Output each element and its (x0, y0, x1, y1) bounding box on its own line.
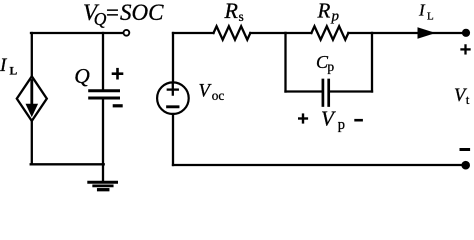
svg-text:V: V (199, 81, 213, 101)
wire bottom-left horizontal (left loop bottom) (31, 163, 104, 165)
current arrow I_L (output) (418, 28, 434, 38)
terminal polarity + (top right) (462, 45, 470, 53)
label Q (capacitor) (74, 64, 90, 88)
capacitor Q plates (90, 91, 119, 98)
label V_t (454, 86, 470, 107)
wire right-loop left vertical (bottom, from V_oc) (172, 114, 174, 165)
ground (89, 164, 117, 189)
node output terminal top (filled dot) (462, 29, 469, 36)
wire top (block right to output terminal) (372, 32, 462, 34)
label I_L (left current source) (0, 55, 18, 78)
label C_p (316, 52, 334, 74)
svg-text:I: I (0, 55, 8, 76)
wire capacitor-Q branch vertical (bottom) (102, 100, 104, 165)
wire left vertical (top of current source branch) (31, 33, 33, 76)
V_p polarity + (299, 115, 307, 123)
label R_s (224, 0, 244, 24)
svg-text:I: I (418, 1, 426, 20)
svg-text:s: s (239, 9, 244, 24)
label V_oc (199, 81, 225, 103)
label R_p (317, 0, 340, 24)
svg-text:p: p (327, 59, 334, 74)
junction / wire parallel-block left vertical (284, 33, 286, 92)
V_p polarity - (356, 119, 362, 122)
wire parallel-block bottom right segment (330, 90, 372, 92)
wire top (block left to R_p) (286, 32, 312, 34)
svg-text:R: R (317, 0, 331, 22)
wire top-left horizontal (left loop top) (31, 32, 123, 34)
wire top (V_oc to R_s) (173, 32, 214, 34)
wire top (R_p to block right) (348, 32, 372, 34)
resistor R_p (311, 26, 348, 39)
label V_Q=SOC (83, 0, 164, 29)
voltage source V_oc (157, 82, 189, 114)
svg-text:Q: Q (74, 64, 90, 88)
wire right-loop left vertical (top, to V_oc) (172, 33, 174, 83)
wire left vertical (bottom of current source branch) (31, 121, 33, 165)
wire capacitor-Q branch vertical (top) (102, 33, 104, 89)
terminal polarity - (bottom right) (461, 148, 469, 151)
wire top (R_s to parallel block) (250, 32, 285, 34)
svg-text:L: L (427, 11, 434, 23)
svg-text:L: L (10, 66, 18, 78)
svg-text:p: p (338, 117, 345, 133)
wire parallel-block bottom left segment (286, 90, 322, 92)
capacitor Q polarity - (114, 104, 121, 107)
svg-text:R: R (224, 0, 239, 23)
junction / wire parallel-block right vertical (371, 33, 373, 92)
label I_L (output current) (418, 1, 434, 23)
capacitor C_p plates (323, 80, 329, 106)
svg-text:V: V (321, 106, 336, 130)
capacitor Q polarity + (113, 69, 122, 78)
svg-text:p: p (331, 8, 340, 24)
svg-text:=SOC: =SOC (105, 0, 165, 25)
svg-text:t: t (466, 92, 470, 107)
node V_Q terminal (open circle) (124, 30, 130, 36)
node output terminal bottom (filled dot) (462, 161, 470, 169)
label V_p (321, 106, 345, 133)
wire bottom (right loop) (173, 164, 462, 166)
current source I_L (diamond with down arrow) (17, 76, 47, 121)
resistor R_s (214, 26, 251, 39)
svg-text:oc: oc (212, 88, 225, 103)
